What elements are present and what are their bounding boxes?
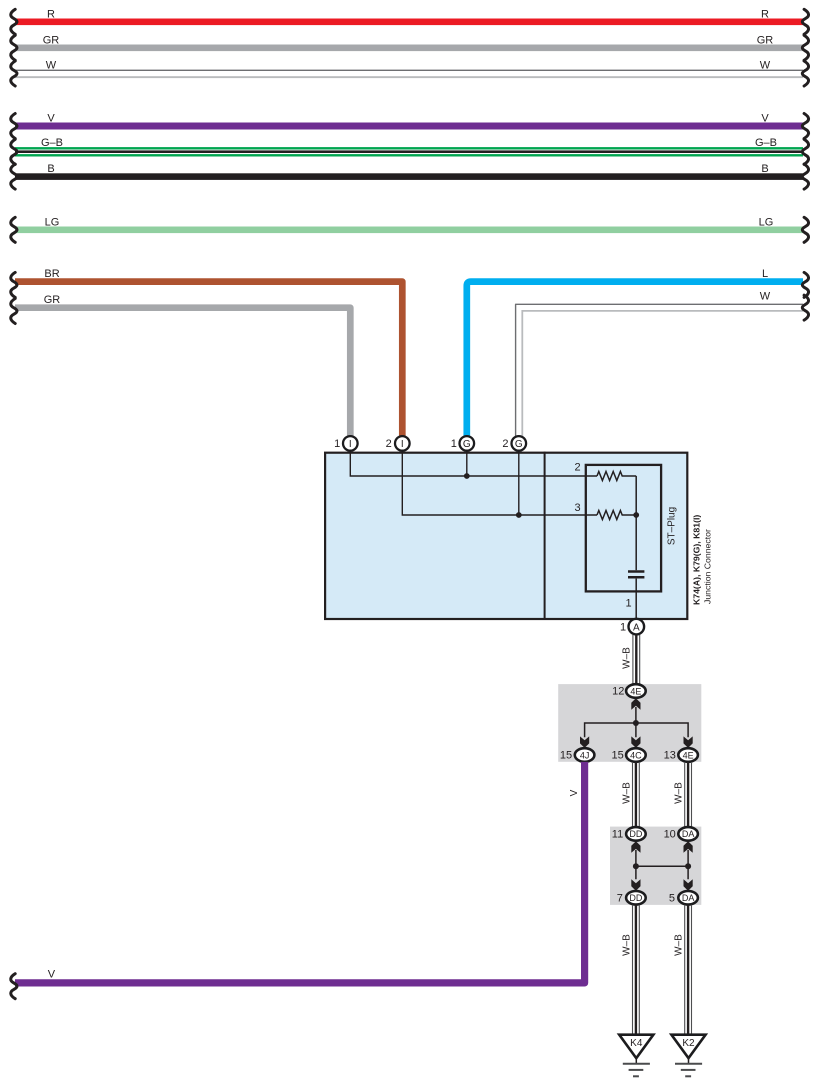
connector pin circle I bbox=[343, 436, 358, 451]
svg-text:2: 2 bbox=[386, 438, 392, 450]
wire L (light blue) to pin 1(G) bbox=[467, 268, 809, 437]
svg-text:4C: 4C bbox=[630, 750, 642, 760]
wire B (black) bbox=[11, 163, 809, 189]
connector ellipse 4J bbox=[575, 748, 595, 762]
link wire DD-DA bbox=[636, 850, 688, 879]
svg-text:W–B: W–B bbox=[674, 934, 685, 956]
svg-text:ST–Plug: ST–Plug bbox=[666, 507, 677, 545]
wire from pin 1(I) to resistor row 2 bbox=[350, 451, 597, 476]
svg-text:BR: BR bbox=[44, 268, 59, 280]
svg-text:V: V bbox=[47, 113, 55, 125]
svg-text:LG: LG bbox=[759, 216, 774, 228]
wire BR (brown) to pin 2(I) bbox=[11, 268, 403, 437]
svg-text:A: A bbox=[633, 622, 640, 633]
junction connector K74(A),K79(G),K81(I) main box bbox=[325, 452, 687, 620]
ST-Plug sub-box bbox=[586, 465, 661, 592]
svg-text:W: W bbox=[46, 59, 57, 71]
junction dot row2/1(G) bbox=[464, 473, 470, 479]
svg-text:G: G bbox=[515, 439, 523, 450]
gray junction block 2 bbox=[610, 827, 701, 905]
resistor row 3 bbox=[597, 511, 636, 520]
arrow up into DA(10) bbox=[684, 841, 693, 853]
svg-text:B: B bbox=[761, 163, 768, 175]
svg-text:V: V bbox=[569, 789, 580, 796]
svg-text:K4: K4 bbox=[630, 1038, 643, 1049]
wire W-B from DD(7) to ground K4 bbox=[621, 905, 639, 1036]
svg-text:10: 10 bbox=[664, 829, 676, 841]
svg-text:15: 15 bbox=[560, 750, 572, 762]
svg-text:2: 2 bbox=[502, 438, 508, 450]
svg-text:7: 7 bbox=[617, 892, 623, 904]
junction dot distribution bbox=[633, 720, 639, 726]
connector ellipse 4E (12) bbox=[626, 684, 646, 698]
wire G-B (green-black) bbox=[11, 137, 809, 164]
svg-text:1: 1 bbox=[620, 621, 626, 633]
svg-text:1: 1 bbox=[625, 598, 631, 610]
svg-text:W–B: W–B bbox=[621, 782, 632, 804]
arrow down into 4C bbox=[631, 736, 640, 748]
svg-text:DD: DD bbox=[629, 829, 642, 839]
wire W2 (white) to pin 2(G) bbox=[516, 291, 809, 437]
connector pin circle G bbox=[512, 436, 527, 451]
svg-text:4J: 4J bbox=[580, 750, 590, 760]
connector ellipse DA (5) bbox=[678, 891, 698, 905]
connector pin circle G bbox=[460, 436, 475, 451]
wire LG (light green) bbox=[11, 216, 809, 242]
svg-text:GR: GR bbox=[43, 34, 60, 46]
wire W-B from DA(5) to ground K2 bbox=[674, 905, 692, 1036]
wire from pin 1(G) bbox=[466, 451, 468, 476]
gray junction block 1 bbox=[558, 684, 701, 762]
ground K2 bbox=[671, 1035, 705, 1077]
svg-text:DA: DA bbox=[682, 829, 695, 839]
connector ellipse DD (11) bbox=[626, 827, 646, 841]
capacitor C bbox=[628, 572, 644, 578]
svg-text:2: 2 bbox=[574, 462, 580, 474]
wire V (violet) bbox=[11, 113, 809, 139]
svg-text:13: 13 bbox=[664, 750, 676, 762]
svg-text:DA: DA bbox=[682, 893, 695, 903]
svg-text:G–B: G–B bbox=[41, 137, 63, 149]
svg-text:W–B: W–B bbox=[621, 934, 632, 956]
connector pin circle I bbox=[395, 436, 410, 451]
wire W-B from 4E(13) to DA(10) bbox=[674, 762, 692, 827]
wire GR (gray) bbox=[11, 34, 809, 60]
svg-text:K74(A), K79(G), K81(I): K74(A), K79(G), K81(I) bbox=[692, 515, 702, 605]
svg-text:L: L bbox=[762, 268, 768, 280]
wire R (red) bbox=[11, 8, 809, 34]
svg-text:I: I bbox=[401, 439, 404, 450]
wire resistor2 to capacitor bbox=[635, 476, 637, 570]
svg-text:3: 3 bbox=[574, 502, 580, 514]
wire W-B from 4C to DD(11) bbox=[621, 762, 639, 827]
svg-text:1: 1 bbox=[334, 438, 340, 450]
wire V (violet) from 4J to left edge bbox=[11, 762, 585, 999]
svg-text:W: W bbox=[760, 59, 771, 71]
wire 4E to junction bbox=[635, 707, 637, 723]
svg-text:B: B bbox=[47, 163, 54, 175]
wire capacitor to pin 1 bbox=[635, 579, 637, 619]
svg-text:W–B: W–B bbox=[674, 782, 685, 804]
svg-text:4E: 4E bbox=[683, 750, 694, 760]
wire W (white) bbox=[11, 59, 809, 86]
svg-text:I: I bbox=[349, 439, 352, 450]
svg-text:V: V bbox=[48, 969, 56, 981]
arrow down into 4E(13) bbox=[684, 736, 693, 748]
connector ellipse DD (7) bbox=[626, 891, 646, 905]
svg-text:1: 1 bbox=[451, 438, 457, 450]
connector pin circle A bbox=[629, 619, 645, 635]
junction dot resistor3 output bbox=[633, 512, 639, 518]
svg-text:15: 15 bbox=[611, 750, 623, 762]
svg-text:4E: 4E bbox=[630, 686, 641, 696]
svg-text:LG: LG bbox=[45, 216, 60, 228]
svg-text:5: 5 bbox=[669, 892, 675, 904]
connector ellipse 4C bbox=[626, 748, 646, 762]
resistor row 2 bbox=[597, 472, 636, 481]
svg-text:GR: GR bbox=[757, 34, 774, 46]
wire W-B from A to 4E bbox=[622, 635, 640, 685]
arrow down into DA(5) bbox=[684, 879, 693, 891]
svg-text:R: R bbox=[761, 8, 769, 20]
svg-text:11: 11 bbox=[612, 829, 623, 841]
connector ellipse 4E (13) bbox=[678, 748, 698, 762]
svg-text:W: W bbox=[760, 291, 771, 303]
svg-text:DD: DD bbox=[629, 893, 642, 903]
svg-text:GR: GR bbox=[44, 294, 61, 306]
arrow down into DD(7) bbox=[631, 879, 640, 891]
junction dot right bbox=[685, 863, 691, 869]
junction dot left bbox=[633, 863, 639, 869]
wire GR2 (gray) to pin 1(I) bbox=[11, 294, 351, 437]
svg-text:12: 12 bbox=[612, 686, 624, 698]
connector ellipse DA (10) bbox=[678, 827, 698, 841]
svg-text:Junction Connector: Junction Connector bbox=[702, 529, 712, 604]
wire from pin 2(G) bbox=[518, 451, 520, 515]
svg-text:W–B: W–B bbox=[622, 647, 633, 669]
distribution bus wire bbox=[585, 723, 689, 737]
junction dot row3/2(G) bbox=[516, 512, 522, 518]
wire from pin 2(I) to resistor row 3 bbox=[402, 451, 597, 515]
svg-text:R: R bbox=[47, 8, 55, 20]
arrow up into DD(11) bbox=[631, 841, 640, 853]
arrow down into 4J bbox=[580, 736, 589, 748]
ground K4 bbox=[619, 1035, 653, 1077]
svg-text:G–B: G–B bbox=[755, 137, 777, 149]
arrow up into 4E bbox=[631, 698, 640, 710]
svg-text:G: G bbox=[463, 439, 471, 450]
svg-text:V: V bbox=[761, 113, 769, 125]
svg-text:K2: K2 bbox=[682, 1038, 695, 1049]
